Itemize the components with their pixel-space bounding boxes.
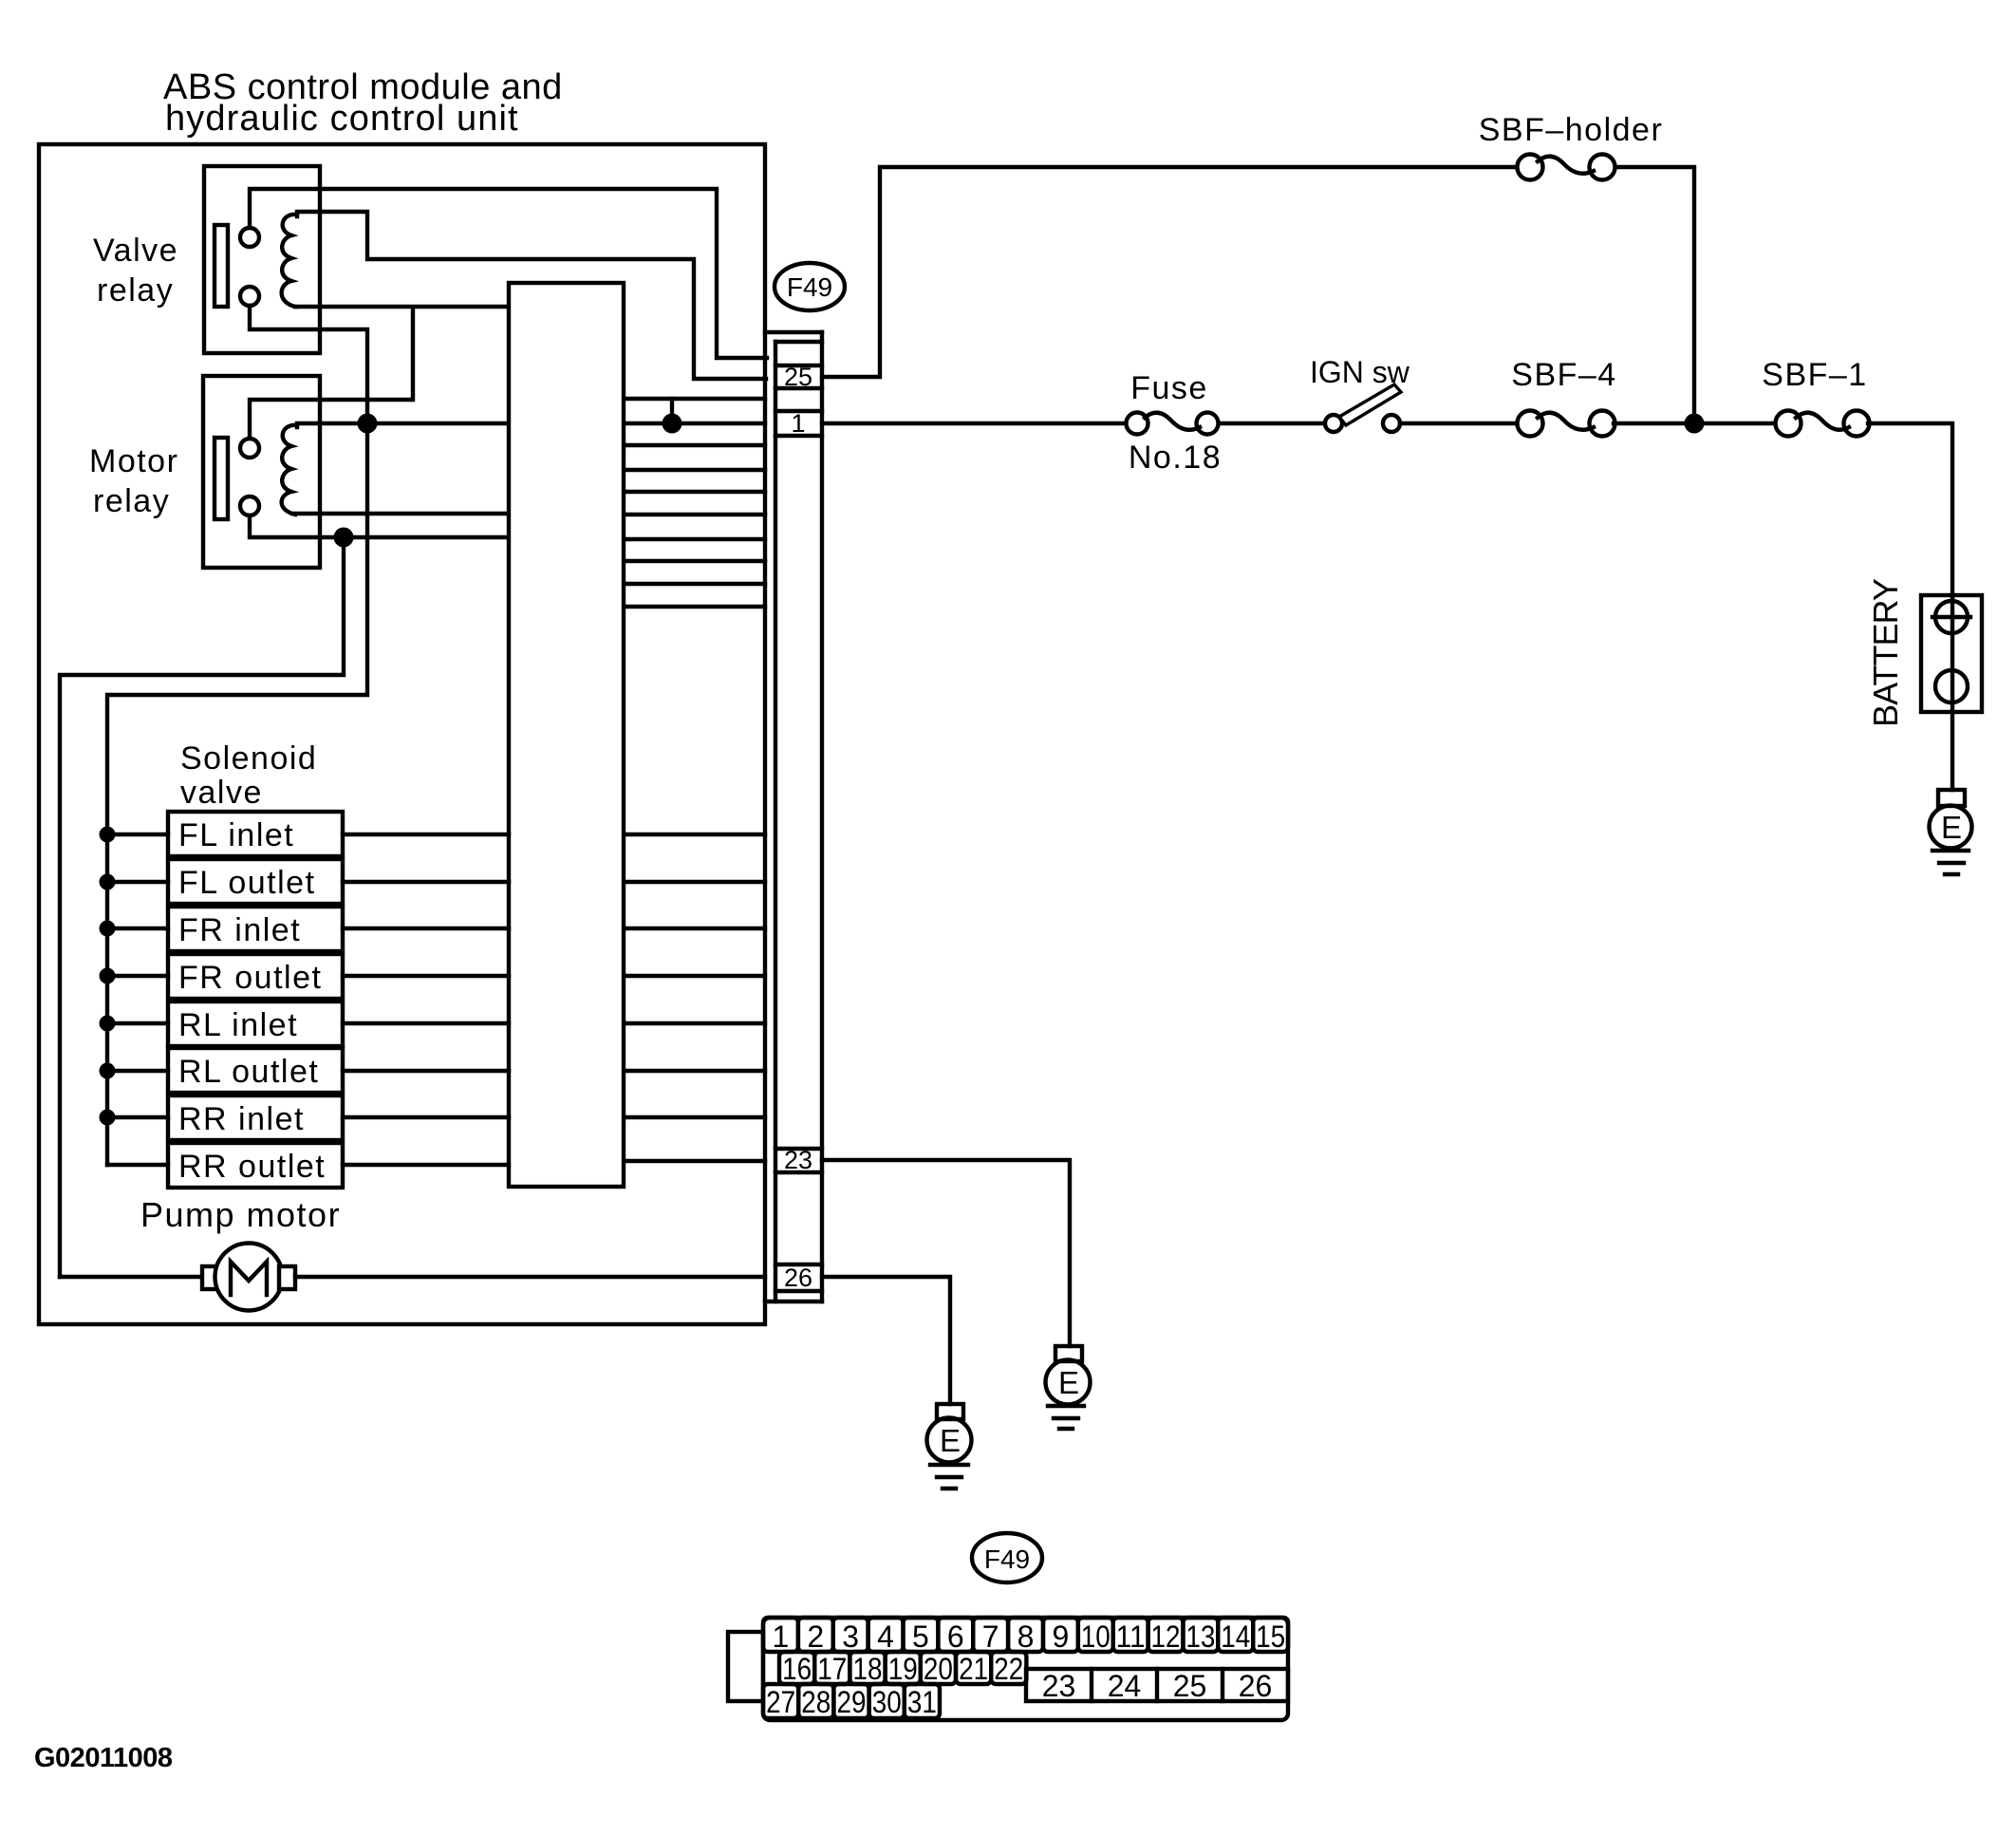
pin 2 cell [798,1618,833,1652]
pin 9 cell [1043,1618,1078,1652]
svg-text:14: 14 [1221,1620,1250,1654]
svg-text:12: 12 [1151,1620,1181,1654]
svg-text:9: 9 [1053,1620,1070,1654]
wire: module to connector stub 3 [625,443,765,447]
svg-text:31: 31 [907,1685,937,1719]
wire: module to connector stub 8 [625,559,765,563]
ground E (pin 26) [937,1404,963,1419]
pin 13 cell [1183,1618,1218,1652]
svg-text:Pump motor: Pump motor [140,1195,341,1234]
pin 22 cell [991,1652,1026,1684]
wire: valve relay bottom contact to solenoid common column [107,306,367,1165]
svg-text:3: 3 [842,1620,859,1654]
wire: IGN sw to SBF-4 [1400,421,1530,425]
ABS control module and hydraulic control unit box [39,144,765,1324]
svg-text:hydraulic control unit: hydraulic control unit [165,99,519,139]
svg-text:SBF–holder: SBF–holder [1479,112,1664,148]
svg-text:Solenoid: Solenoid [180,740,317,777]
wire: pin 23 to ground [822,1160,1070,1346]
svg-text:25: 25 [784,363,812,391]
svg-text:15: 15 [1256,1620,1285,1654]
pump motor left terminal [202,1266,218,1289]
pin 16 cell [779,1652,814,1684]
svg-text:18: 18 [853,1652,883,1686]
wire: motor relay coil bottom to module [292,512,509,515]
svg-text:1: 1 [791,409,805,438]
wire: module to connector pin 23 (RR outlet net) [625,1159,765,1163]
svg-text:No.18: No.18 [1129,440,1222,476]
pin 10 cell [1078,1618,1113,1652]
pin 14 cell [1218,1618,1253,1652]
svg-text:4: 4 [877,1620,894,1654]
svg-text:26: 26 [1239,1669,1273,1703]
pin 19 cell [886,1652,921,1684]
svg-text:16: 16 [782,1652,812,1686]
connector pin 23 cell [775,1147,822,1151]
pin 1 cell [763,1618,798,1652]
svg-text:BATTERY: BATTERY [1866,578,1905,727]
connector pin 1 cell [775,409,822,413]
svg-text:23: 23 [1042,1669,1076,1703]
svg-text:FR inlet: FR inlet [178,912,301,948]
wire: pin 25 to SBF-holder to battery node [822,167,1517,377]
wire: branch from motor contact net to pump motor [60,537,344,1277]
wire: module to connector solenoid stub RR inlet [625,1115,765,1119]
valve relay bottom contact [240,287,259,306]
junction dot D (SBF-holder node) [1685,414,1705,434]
svg-text:relay: relay [93,483,170,519]
svg-text:F49: F49 [984,1545,1030,1574]
battery box [1921,595,1982,712]
wire: module to connector stub 7 [625,537,765,541]
pin 11 cell [1113,1618,1148,1652]
pin 28 cell [798,1684,833,1718]
svg-text:RR outlet: RR outlet [178,1149,326,1185]
svg-text:Valve: Valve [93,233,178,269]
wire: left branch to pump motor [60,1275,203,1279]
svg-text:SBF–4: SBF–4 [1511,357,1616,393]
solenoid valve RR outlet [168,1143,343,1188]
wire: module to connector solenoid stub FL outlet [625,880,765,884]
battery positive terminal [1935,601,1968,633]
wire: module to connector stub 4 [625,468,765,472]
wire: pin 26 to ground [822,1277,950,1404]
svg-text:E: E [940,1423,961,1458]
wire: valve relay top contact to connector pin 25 area (upper route) [250,189,767,358]
pin 3 cell [833,1618,868,1652]
svg-text:17: 17 [817,1652,847,1686]
connector F49 strip body [765,330,822,334]
connector pin 25 cell [775,364,822,367]
svg-text:29: 29 [837,1685,867,1719]
svg-text:13: 13 [1185,1620,1215,1654]
svg-text:21: 21 [959,1652,988,1686]
solenoid valve RL outlet [168,1048,343,1093]
svg-text:E: E [1941,810,1962,845]
pin table left tab [728,1632,763,1701]
svg-text:19: 19 [888,1652,918,1686]
pin 17 cell [814,1652,849,1684]
pin 12 cell [1148,1618,1184,1652]
svg-text:G02011008: G02011008 [34,1743,173,1773]
svg-text:23: 23 [784,1146,812,1174]
svg-text:2: 2 [807,1620,824,1654]
valve relay coil [282,215,297,307]
wire: fuse to IGN sw [1219,421,1334,425]
wire: pin 1 to fuse No.18 [822,421,1137,425]
pin 31 cell [905,1684,940,1718]
svg-text:24: 24 [1108,1669,1142,1703]
svg-text:1: 1 [773,1620,790,1654]
ground E (pin 23) [1055,1346,1082,1361]
wire: module to connector stub 6 [625,513,765,516]
ABS control module internal block [509,283,624,1187]
wire: valve relay coil top to connector pin 25 [297,212,766,379]
svg-text:RR inlet: RR inlet [178,1101,305,1137]
pin 18 cell [849,1652,885,1684]
wire: module to connector solenoid stub FR inlet [625,927,765,930]
valve relay box [204,166,320,353]
pin 20 cell [921,1652,956,1684]
junction dot A (solenoid common / pin1 wire crossing) [358,414,378,434]
valve relay contact bar [215,225,228,307]
wire: motor relay top contact riser to coil-bottom net [250,309,413,439]
wire: module to connector row 1 (with branch to pin 1 net) [625,397,765,401]
wire: SBF-1 to battery [1868,423,1952,601]
svg-text:28: 28 [801,1685,831,1719]
svg-text:22: 22 [994,1652,1023,1686]
svg-text:FL outlet: FL outlet [178,865,316,901]
wire: module to connector solenoid stub RL inlet [625,1021,765,1025]
battery negative terminal [1935,670,1968,702]
solenoid valve FL outlet [168,859,343,904]
solenoid valve FR outlet [168,954,343,999]
svg-text:20: 20 [924,1652,953,1686]
junction dot C on pin 1 wire [663,414,682,434]
svg-text:27: 27 [766,1685,795,1719]
svg-text:6: 6 [947,1620,964,1654]
svg-text:25: 25 [1173,1669,1207,1703]
motor relay coil [282,425,297,515]
svg-text:11: 11 [1116,1620,1146,1654]
pin 27 cell [763,1684,798,1718]
pin 29 cell [833,1684,868,1718]
svg-text:5: 5 [912,1620,929,1654]
junction dot B (pump motor branch) [334,528,354,548]
svg-text:F49: F49 [787,272,832,302]
svg-text:SBF–1: SBF–1 [1762,357,1867,393]
wire: module to connector stub 10 [625,605,765,609]
solenoid valve RR inlet [168,1095,343,1140]
motor relay contact bar [215,438,228,519]
wire: pump motor to connector pin 26 [295,1275,765,1279]
wire: module to connector stub 5 [625,490,765,494]
solenoid valve FL inlet [168,812,343,856]
motor relay top contact [240,439,259,458]
svg-text:FR outlet: FR outlet [178,960,322,996]
motor relay bottom contact [240,496,259,515]
connector F49 pin table outline [763,1618,1288,1720]
svg-text:RL inlet: RL inlet [178,1007,298,1043]
wire: motor relay bottom contact to module [250,515,509,537]
connector F49 label oval [775,263,845,310]
connector pin 26 cell [775,1263,822,1266]
svg-text:RL outlet: RL outlet [178,1054,319,1090]
solenoid valve RL inlet [168,1002,343,1046]
pin 23-26 band [1026,1669,1288,1701]
ground E (battery) [1938,790,1965,806]
F49 bottom oval [972,1533,1042,1582]
svg-text:10: 10 [1081,1620,1111,1654]
svg-text:E: E [1058,1365,1079,1400]
svg-text:30: 30 [872,1685,902,1719]
valve relay top contact [240,228,259,247]
wire: module to connector stub 9 [625,582,765,586]
wire: SBF-4 to SBF-1 with battery junction [1614,421,1788,425]
pin 5 cell [904,1618,939,1652]
solenoid valve FR inlet [168,907,343,951]
svg-text:26: 26 [784,1264,812,1292]
pin 30 cell [869,1684,905,1718]
pin 21 cell [956,1652,991,1684]
svg-text:FL inlet: FL inlet [178,817,294,853]
pump motor body [215,1244,283,1311]
svg-text:relay: relay [97,272,174,309]
wire through battery [1951,595,1954,790]
svg-text:Motor: Motor [89,443,178,479]
pin 7 cell [973,1618,1008,1652]
wire: module to connector solenoid stub FL inlet [625,833,765,836]
pin 6 cell [938,1618,973,1652]
wire: motor relay coil top to module (pin 1 net, left segment) [297,423,509,427]
svg-text:7: 7 [982,1620,999,1654]
wire: pin 1 net right segment into pin 1 cell [625,421,765,425]
svg-text:8: 8 [1017,1620,1035,1654]
pin 4 cell [868,1618,904,1652]
pump motor right terminal [279,1266,295,1289]
pin 8 cell [1008,1618,1043,1652]
wire: module to connector solenoid stub RL outlet [625,1069,765,1073]
motor relay box [203,376,320,568]
svg-text:Fuse: Fuse [1130,370,1208,406]
svg-text:valve: valve [180,775,263,811]
wire: valve relay coil bottom to module [295,305,509,309]
pin 15 cell [1253,1618,1288,1652]
wire: module to connector solenoid stub FR outlet [625,974,765,978]
